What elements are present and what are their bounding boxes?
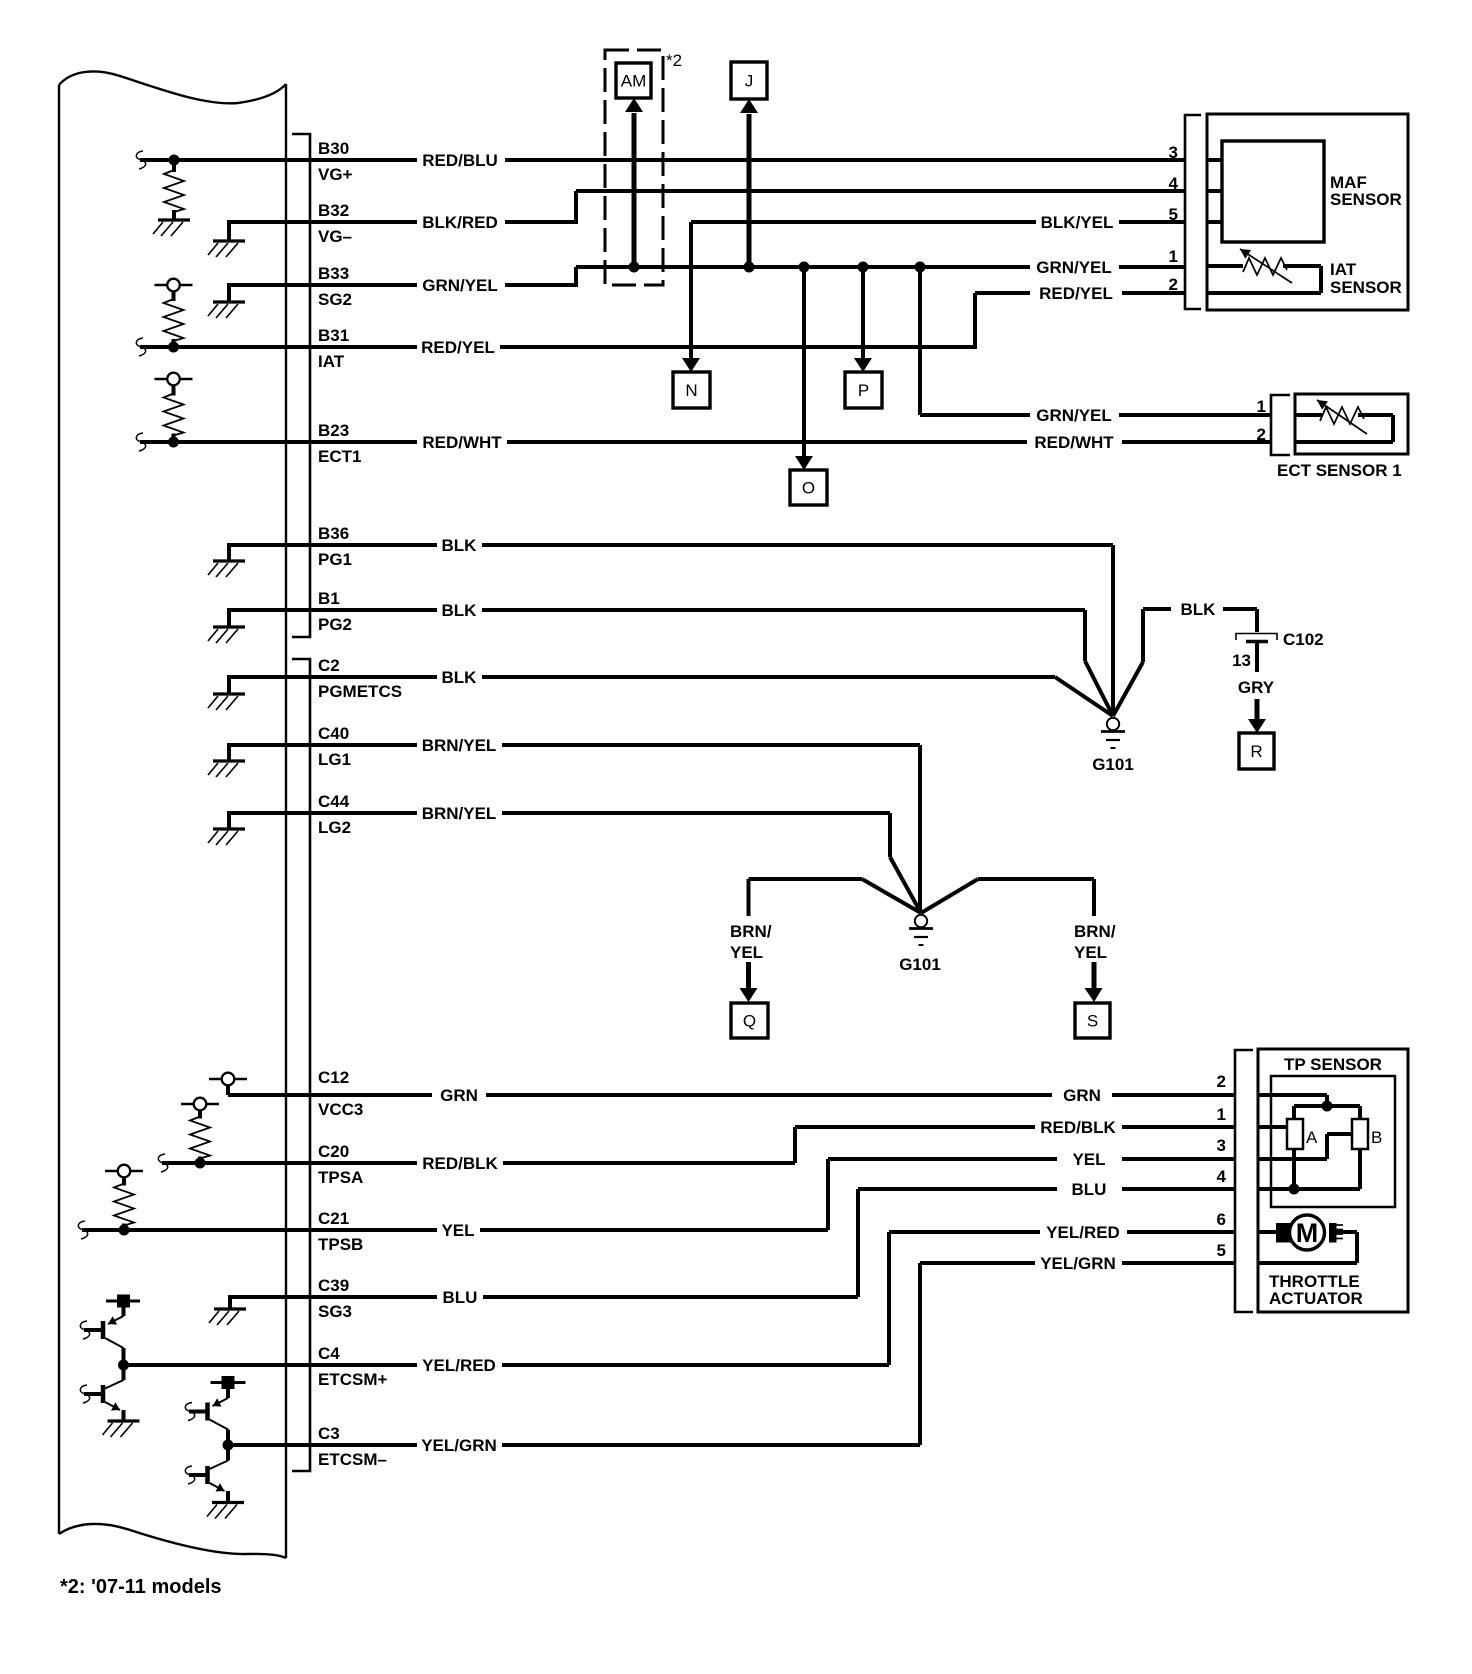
pin label C20/TPSA [318,1142,363,1187]
resistor ECM pull-up TPSB [114,1177,134,1230]
svg-text:GRN: GRN [1063,1086,1101,1105]
junction dot P tap [858,262,869,273]
junction dot B30 internal [169,155,180,166]
ground ECM internal PG2 [208,627,245,643]
ground ECM internal SG2 [208,302,245,318]
svg-text:C40: C40 [318,724,349,743]
svg-text:1: 1 [1169,247,1178,266]
label THROTTLE ACTUATOR [1269,1272,1363,1308]
svg-text:O: O [802,479,815,498]
ground lead PG1 [227,543,231,561]
svg-text:TPSB: TPSB [318,1235,363,1254]
svg-text:BLK/RED: BLK/RED [422,213,498,232]
pin label B30/VG+ [318,139,353,184]
svg-text:IAT: IAT [318,352,345,371]
svg-text:RED/BLK: RED/BLK [422,1154,498,1173]
resistor ECM pull-up to B31 [164,291,184,347]
wire arrow into Q [740,962,758,1002]
svg-text:VG–: VG– [318,227,352,246]
label GRY [1238,678,1275,697]
hook wire-end C21 [78,1221,87,1239]
label TP pin 4 [1217,1167,1227,1186]
TP wire pin3 wiper to B [1258,1134,1352,1159]
supply circle VCC3 [209,1073,247,1086]
wire B30 RED/BLU to MAF pin 3 [140,151,1185,170]
transistor Q3 (PNP high-side ETCSM-) [189,1389,228,1445]
svg-text:TPSA: TPSA [318,1168,363,1187]
svg-text:GRN/YEL: GRN/YEL [1036,406,1112,425]
svg-text:PG2: PG2 [318,615,352,634]
connector bracket TP [1235,1050,1253,1312]
svg-text:GRN/YEL: GRN/YEL [422,276,498,295]
supply circle TPSB [105,1165,143,1178]
ground lead SG3 [228,1295,232,1309]
wire G101 branch to S [921,879,1094,916]
svg-text:YEL/RED: YEL/RED [1046,1223,1120,1242]
junction dot ECT tap [915,262,926,273]
junction dot TP ground [1289,1184,1300,1195]
svg-text:BLK: BLK [442,668,478,687]
wire drop to N box [682,222,700,372]
ground Q2 emitter [103,1421,140,1437]
svg-text:N: N [685,381,697,400]
svg-text:YEL/RED: YEL/RED [422,1356,496,1375]
svg-text:G101: G101 [1092,755,1134,774]
wire C39 BLU to TP pin 4 [230,1180,1235,1307]
svg-text:C2: C2 [318,656,340,675]
label TP pin 6 [1217,1210,1226,1229]
label IAT SENSOR [1330,260,1402,297]
node R box [1239,733,1274,769]
label G101 lower [899,955,941,974]
pin label C4/ETCSM+ [318,1344,388,1389]
wire B1 BLK to G101 [229,601,1113,716]
svg-text:BLK: BLK [1181,600,1217,619]
svg-text:ECT1: ECT1 [318,447,361,466]
svg-text:B30: B30 [318,139,349,158]
svg-text:ACTUATOR: ACTUATOR [1269,1289,1363,1308]
pin label C21/TPSB [318,1209,363,1254]
ECT sensor outer box [1295,394,1408,454]
wire P drop [854,267,872,372]
transistor Q2 (NPN low-side ETCSM+) [84,1365,124,1421]
svg-text:RED/YEL: RED/YEL [1039,284,1113,303]
svg-text:YEL: YEL [1074,943,1107,962]
wire AM arrow [625,98,643,267]
svg-text:LG2: LG2 [318,818,351,837]
pin label B31/IAT [318,326,349,371]
transistor Q4 (NPN low-side ETCSM-) [189,1445,228,1503]
potentiometer A [1287,1119,1318,1149]
svg-text:G101: G101 [899,955,941,974]
pin label B36/PG1 [318,524,352,569]
svg-text:ETCSM+: ETCSM+ [318,1370,388,1389]
svg-text:RED/BLK: RED/BLK [1040,1118,1116,1137]
svg-text:SENSOR: SENSOR [1330,190,1402,209]
svg-text:C44: C44 [318,792,350,811]
pin label C2/PGMETCS [318,656,402,701]
junction dot TPSA [195,1158,206,1169]
ground ECM internal below B30 resistor [153,220,190,236]
svg-text:RED/WHT: RED/WHT [422,433,502,452]
svg-text:B32: B32 [318,201,349,220]
label MAF SENSOR [1330,173,1402,209]
hook wire-end B30 [136,151,145,169]
ground ECM internal PG1 [208,561,245,577]
connector bracket MAF [1185,115,1201,309]
svg-text:4: 4 [1169,174,1179,193]
svg-text:VCC3: VCC3 [318,1100,363,1119]
TP wire pin5 to motor [1258,1232,1357,1263]
pin label C40/LG1 [318,724,351,769]
label pin 13 [1232,651,1251,670]
svg-text:RED/BLU: RED/BLU [422,151,498,170]
pin label C44/LG2 [318,792,351,837]
svg-text:C102: C102 [1283,630,1324,649]
svg-text:*2: '07-11 models: *2: '07-11 models [60,1576,222,1598]
svg-text:YEL: YEL [730,943,763,962]
svg-text:6: 6 [1217,1210,1226,1229]
pin label B23/ECT1 [318,421,361,466]
svg-text:BRN/YEL: BRN/YEL [422,736,497,755]
svg-text:PG1: PG1 [318,550,352,569]
wire B23 RED/WHT to ECT pin 2 [140,433,1271,452]
node S box [1075,1003,1110,1038]
svg-text:C4: C4 [318,1344,340,1363]
svg-text:IAT: IAT [1330,260,1357,279]
ground lead LG2 [227,811,231,829]
TP supply bus [1294,1106,1360,1119]
svg-text:M: M [1296,1218,1319,1248]
ground ECM internal SG3 [209,1309,246,1325]
svg-text:C21: C21 [318,1209,349,1228]
TP ground bus pin4 [1258,1149,1360,1189]
svg-text:B36: B36 [318,524,349,543]
label TP pin 2 [1217,1072,1226,1091]
thermistor zigzag IAT [1243,258,1287,275]
svg-text:GRN/YEL: GRN/YEL [1036,258,1112,277]
label C102 [1283,630,1324,649]
svg-text:B31: B31 [318,326,349,345]
wire B32 BLK/RED with jog up to MAF pin 4 [229,191,1185,232]
ECM connector bracket C (pins C2-C3) [292,659,310,1471]
motor M throttle [1290,1215,1325,1250]
supply circle ECM internal for SG2 net [155,279,193,292]
svg-text:BRN/YEL: BRN/YEL [422,804,497,823]
svg-text:3: 3 [1217,1136,1226,1155]
junction dot C3 [223,1440,234,1451]
wire arrow into S [1085,962,1103,1002]
ground Q4 emitter [207,1503,244,1519]
resistor ECM pull-up to B23 [164,385,184,442]
node O box [790,470,827,505]
svg-text:LG1: LG1 [318,750,351,769]
svg-text:GRY: GRY [1238,678,1275,697]
connector C102 symbol [1236,634,1277,642]
ground lead PGMETCS [227,675,231,694]
svg-text:2: 2 [1169,275,1178,294]
svg-text:B: B [1371,1128,1382,1147]
label TP pin 3 [1217,1136,1226,1155]
hook base Q1 [80,1321,89,1339]
wire J arrow [740,99,758,267]
ground ECM internal LG1 [208,761,245,777]
svg-text:R: R [1250,742,1262,761]
wire C2 BLK to G101 [229,668,1113,716]
svg-text:A: A [1306,1128,1318,1147]
svg-text:2: 2 [1217,1072,1226,1091]
TP wire pin2 supply [1258,1095,1327,1106]
resistor ECM pull-up TPSA [190,1110,210,1163]
svg-text:13: 13 [1232,651,1251,670]
junction dot B31 internal [168,342,179,353]
thermistor arrow ECT [1317,400,1367,434]
svg-text:PGMETCS: PGMETCS [318,682,402,701]
svg-text:C12: C12 [318,1068,349,1087]
svg-text:*2: *2 [666,51,682,70]
label BRN/YEL right [1074,922,1116,962]
svg-text:YEL/GRN: YEL/GRN [1040,1254,1116,1273]
footnote *2 models [60,1576,222,1598]
hook wire-end B31 [136,338,145,356]
ground G101 upper [1101,718,1125,748]
power square supply for Q1 [106,1295,140,1308]
TP wire pin1 to A [1258,1125,1287,1129]
svg-text:1: 1 [1217,1105,1226,1124]
hook wire-end C20 [158,1154,167,1172]
svg-text:TP SENSOR: TP SENSOR [1284,1055,1382,1074]
MAF sensing element box [1222,141,1324,242]
svg-text:ECT SENSOR 1: ECT SENSOR 1 [1277,461,1402,480]
ground ECM internal LG2 [208,829,245,845]
power square supply for Q3 [211,1376,246,1389]
label G101 upper [1092,755,1134,774]
TP sensor inner box [1271,1076,1395,1207]
node P box [845,372,882,408]
label ECT pin 1 [1257,397,1266,416]
wire C21 YEL to TP pin 3 [82,1150,1235,1240]
ground lead PG2 [227,608,231,627]
svg-text:C20: C20 [318,1142,349,1161]
svg-text:SG2: SG2 [318,290,352,309]
thermistor zigzag ECT [1320,407,1364,424]
junction dot C4 [118,1360,129,1371]
ECM connector bracket B (pins B30-B1) [292,134,310,637]
ground ECM internal PGMETCS [208,694,245,710]
TP wire pin6 to motor [1258,1230,1276,1234]
svg-text:VG+: VG+ [318,165,353,184]
svg-text:SENSOR: SENSOR [1330,278,1402,297]
MAF stub pin 4 [1207,189,1222,193]
svg-text:GRN: GRN [440,1086,478,1105]
hook base Q3 [185,1403,194,1421]
supply circle ECM internal above B23 [155,373,193,386]
hook wire-end B23 [136,433,145,451]
wire C20 RED/BLK to TP pin 1 [162,1118,1235,1173]
wire below C102 [1255,642,1259,672]
connector bracket ECT [1271,395,1290,455]
wire B31 RED/YEL [140,338,975,357]
MAF sensor outer box [1207,114,1408,310]
wire G101 branch to Q [749,879,922,916]
label MAF pin 1 [1169,247,1178,266]
svg-text:S: S [1087,1012,1098,1031]
label MAF pin 4 [1169,174,1179,193]
svg-text:BRN/: BRN/ [730,922,772,941]
ground lead LG1 [227,743,231,761]
wire C4 YEL/RED to TP pin 6 [124,1223,1236,1375]
junction dot AM tap [629,262,640,273]
MAF stub pin 3 [1207,158,1222,162]
svg-text:B1: B1 [318,589,340,608]
wire ECT pin1 GRN/YEL drop from net [920,267,1271,425]
label MAF pin 2 [1169,275,1178,294]
motor brush right [1329,1223,1343,1243]
svg-text:SG3: SG3 [318,1302,352,1321]
potentiometer B [1352,1119,1382,1149]
node N box [673,372,710,408]
supply circle TPSA [181,1098,219,1111]
svg-text:BLK/YEL: BLK/YEL [1041,213,1114,232]
pin label C3/ETCSM– [318,1424,387,1469]
label TP SENSOR [1284,1055,1382,1074]
svg-text:YEL/GRN: YEL/GRN [421,1436,497,1455]
svg-text:5: 5 [1217,1241,1226,1260]
svg-text:BLU: BLU [443,1288,478,1307]
wire BLK/YEL MAF pin 5 to N drop [691,213,1185,232]
ECM case outline with torn wavy edges [59,71,286,1558]
svg-text:P: P [858,381,869,400]
hook base Q4 [185,1466,194,1484]
wire B36 BLK to G101 [229,536,1113,716]
ground lead SG2 [227,283,231,302]
label MAF pin 5 [1169,205,1178,224]
svg-text:Q: Q [743,1012,756,1031]
label TP pin 1 [1217,1105,1226,1124]
wire B33 GRN/YEL with jog up to sensor supply net [229,267,576,295]
svg-text:4: 4 [1217,1167,1227,1186]
pin label C12/VCC3 [318,1068,363,1119]
svg-text:BRN/: BRN/ [1074,922,1116,941]
pin label B1/PG2 [318,589,352,634]
svg-text:1: 1 [1257,397,1266,416]
wire C12 GRN to TP pin 2 [228,1085,1235,1105]
label ECT SENSOR 1 [1277,461,1402,480]
transistor Q1 (PNP high-side ETCSM+) [84,1307,124,1365]
svg-text:BLU: BLU [1072,1180,1107,1199]
svg-text:RED/YEL: RED/YEL [421,338,495,357]
IAT element wires [1207,266,1321,293]
svg-text:YEL: YEL [441,1221,474,1240]
dashed option box *2 [605,50,663,285]
label TP pin 5 [1217,1241,1226,1260]
wire GRY arrow to R [1248,699,1266,733]
pin label C39/SG3 [318,1276,352,1321]
ECT element wires [1295,415,1393,442]
wire jog RED/YEL up to MAF pin 2 [975,284,1185,349]
footnote marker *2 at box [666,51,682,70]
svg-text:B33: B33 [318,264,349,283]
connector J box [731,62,767,99]
label ECT pin 2 [1257,425,1266,444]
hook base Q2 [80,1385,89,1403]
wire C44 BRN/YEL to G101 [229,804,921,913]
svg-text:J: J [745,72,754,91]
svg-text:YEL: YEL [1072,1150,1105,1169]
ground lead VG- [227,220,231,241]
svg-text:BLK: BLK [442,536,478,555]
thermistor arrow IAT [1240,249,1292,283]
pin label B32/VG– [318,201,352,246]
node Q box [731,1003,768,1038]
wire BLK from G101 to C102 [1113,600,1257,716]
svg-text:AM: AM [621,72,647,91]
ground ECM internal VG- [208,241,245,257]
MAF stub pin 5 [1207,220,1222,224]
junction dot J tap [744,262,755,273]
junction dot TPSB [119,1225,130,1236]
junction dot B23 internal [168,437,179,448]
motor brush left [1276,1223,1291,1243]
svg-text:RED/WHT: RED/WHT [1034,433,1114,452]
wire GRN/YEL net y267 to MAF pin 1 [576,258,1185,277]
junction dot O tap [799,262,810,273]
pin label B33/SG2 [318,264,352,309]
svg-text:3: 3 [1169,143,1178,162]
connector AM box [616,63,651,98]
label BRN/YEL left [730,922,772,962]
svg-text:C3: C3 [318,1424,340,1443]
junction dot TP supply [1322,1101,1333,1112]
label MAF pin 3 [1169,143,1178,162]
ground G101 lower [909,915,933,945]
throttle body outer box [1258,1049,1408,1312]
svg-text:C39: C39 [318,1276,349,1295]
wire C3 YEL/GRN to TP pin 5 [228,1254,1235,1455]
wire C40 BRN/YEL to G101 [229,736,920,913]
wire O drop [795,267,813,470]
svg-text:BLK: BLK [442,601,478,620]
svg-text:B23: B23 [318,421,349,440]
svg-text:5: 5 [1169,205,1178,224]
svg-text:ETCSM–: ETCSM– [318,1450,387,1469]
resistor ECM pull-down on B30 [164,160,184,220]
svg-text:2: 2 [1257,425,1266,444]
